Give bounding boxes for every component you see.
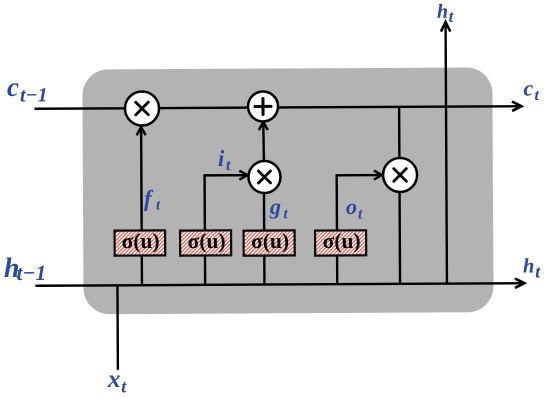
svg-text:x: x [107,366,121,393]
sigma box o: sigma(u) [315,229,366,256]
svg-text:i: i [218,146,225,171]
svg-text:h: h [523,255,535,277]
svg-text:t: t [358,206,363,223]
multiply node (forget gate) [125,91,159,125]
multiply node (output gate) [383,158,417,192]
wire h bottom (hidden state path, left to right) [35,278,524,290]
svg-text:σ(u): σ(u) [188,229,226,253]
label h_t right [523,255,541,281]
svg-text:o: o [346,194,357,219]
wire g (candidate branch) [263,192,266,284]
label i_t [218,146,231,174]
svg-text:σ(u): σ(u) [122,229,160,253]
svg-text:t−1: t−1 [16,261,46,285]
wire o (output gate branch, elbow into right multiplier) [337,171,383,285]
svg-text:σ(u): σ(u) [251,229,289,253]
svg-text:c: c [523,75,533,100]
wire x_t input [116,285,119,369]
label c_{t-1} [7,72,48,107]
svg-text:t: t [121,376,127,396]
multiply node (input x candidate) [248,161,280,193]
svg-text:g: g [269,194,281,219]
svg-text:t: t [449,7,455,26]
label h_{t-1} [4,253,46,285]
svg-text:σ(u): σ(u) [323,229,361,253]
label x_t [107,366,127,397]
LSTM cell body [82,67,493,314]
label f_t [144,186,161,214]
svg-text:t: t [226,157,231,174]
wire c (cell state path, left to right) [34,102,521,114]
wire f (forget gate branch) [137,127,147,286]
sigma box i: sigma(u) [180,229,231,256]
sigma box g: sigma(u) [244,229,295,256]
label g_t [269,194,289,222]
label c_t [523,75,539,104]
svg-text:t: t [535,262,541,282]
svg-text:t−1: t−1 [20,84,48,106]
wire c branch down through right multiplier [398,107,401,284]
add node [248,91,278,121]
wire i (input gate branch, elbow into multiplier) [205,171,248,285]
sigma box f: sigma(u) [115,229,166,256]
svg-text:t: t [534,87,539,104]
wire multiplier to adder [259,122,268,162]
label o_t [346,194,363,223]
svg-text:h: h [437,1,448,23]
svg-text:c: c [7,72,19,102]
wire h top (output up to h_t) [441,22,452,284]
label h_t top [437,1,455,26]
